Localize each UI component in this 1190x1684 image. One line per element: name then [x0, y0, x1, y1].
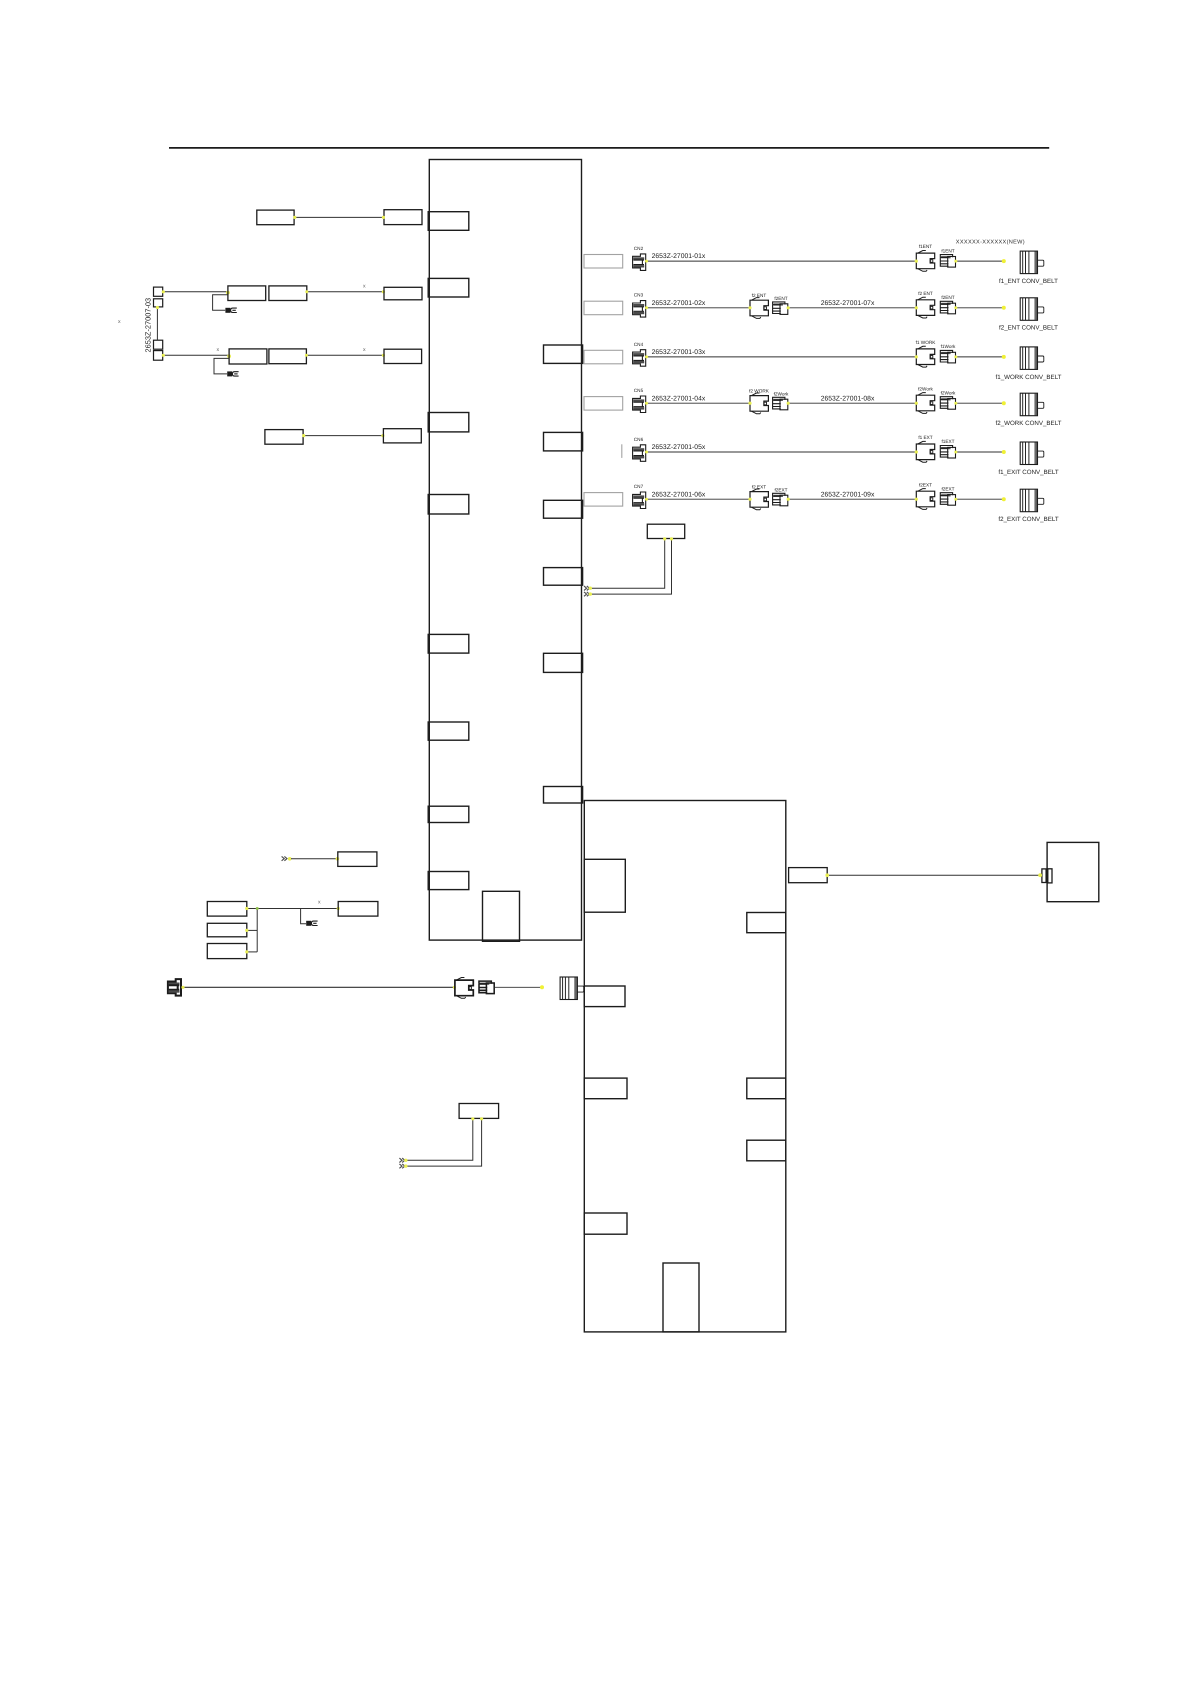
mid wire: [788, 498, 917, 500]
svg-text:2653Z-27001-08x: 2653Z-27001-08x: [821, 395, 875, 402]
svg-text:f1ENT: f1ENT: [941, 248, 954, 253]
remote terminal big box: [1047, 842, 1099, 901]
wire to remote box: [827, 874, 1040, 876]
wire to motor: [956, 260, 1004, 262]
stub arrow row: [282, 856, 287, 860]
PCB1 left edge connector box 3: [428, 413, 469, 432]
group box A: [207, 902, 247, 917]
row2 box 1: [228, 286, 266, 301]
left connector square A1: [154, 287, 163, 296]
svg-text:2653Z-27007-03: 2653Z-27007-03: [143, 298, 152, 353]
wire to motor: [956, 307, 1004, 309]
wire row4: [303, 435, 383, 437]
socket f1Work: [940, 350, 955, 363]
motor row long wire: [182, 986, 455, 988]
group right box D: [338, 902, 378, 917]
svg-text:x: x: [318, 900, 321, 906]
control unit PCB1 box: [429, 160, 581, 941]
PCB2 left edge tall box: [584, 859, 625, 912]
wire sq to row3 box: [163, 354, 229, 356]
socket f2EXT: [940, 493, 955, 506]
PCB1 right edge connector box 3: [544, 500, 583, 518]
svg-text:f2EXT: f2EXT: [941, 486, 954, 491]
motor f1_ENT CONV_BELT: [1020, 251, 1044, 274]
row2 box 2: [269, 286, 307, 301]
connector CN2: [633, 254, 646, 271]
connector CN4: [633, 350, 646, 367]
svg-text:2653Z-27001-06x: 2653Z-27001-06x: [652, 491, 706, 498]
wire: [646, 451, 917, 453]
row4 box 2: [383, 429, 421, 443]
gray edge box row1: [584, 255, 623, 269]
gray stub row5: [621, 444, 623, 458]
top border rule: [169, 147, 1049, 149]
wire to motor: [956, 356, 1004, 358]
svg-text:x: x: [118, 319, 121, 325]
svg-text:2653Z-27001-03x: 2653Z-27001-03x: [652, 349, 706, 356]
plug f1 EXT: [916, 441, 934, 462]
motor f1_EXIT CONV_BELT: [1020, 442, 1044, 465]
svg-text:CN7: CN7: [634, 484, 644, 489]
PCB1 bottom edge box: [483, 891, 520, 941]
wire: [646, 498, 750, 500]
socket f2Work: [940, 397, 955, 410]
control unit PCB2 box: [584, 801, 786, 1332]
group bus wires: [247, 908, 338, 910]
gray edge box row3: [584, 350, 623, 364]
PCB2 right edge box 1: [747, 913, 786, 933]
wire sq to row2 box: [163, 291, 228, 293]
PCB1 left edge connector box 2: [428, 278, 469, 297]
motor f1_WORK CONV_BELT: [1020, 347, 1044, 370]
PCB1 left edge connector box 5: [428, 634, 469, 653]
mid plug f2 EXT: [750, 489, 768, 510]
wire: [646, 307, 750, 309]
svg-text:CN5: CN5: [634, 388, 644, 393]
svg-text:CN6: CN6: [634, 437, 644, 442]
row3 box 2: [269, 349, 307, 364]
wire row3 to box3: [306, 354, 384, 356]
svg-text:x: x: [217, 347, 220, 353]
PCB1 right edge connector box 1: [544, 345, 583, 363]
plug f2Work: [916, 393, 934, 414]
row2 box 3: [384, 287, 422, 300]
socket f2ENT: [940, 301, 955, 314]
svg-text:CN3: CN3: [634, 293, 644, 298]
group box B: [207, 923, 247, 937]
svg-text:f2ENT: f2ENT: [941, 295, 954, 300]
motor row wire 2: [495, 986, 541, 988]
svg-text:f2 WORK: f2 WORK: [749, 389, 770, 394]
left connector square A2: [154, 299, 163, 307]
PCB1 right edge connector box 4: [544, 568, 583, 586]
socket f1ENT: [940, 255, 955, 268]
PCB1 right edge connector box 2: [544, 432, 583, 451]
mid socket f2EXT: [773, 493, 788, 506]
PCB1 right edge connector box 6: [544, 787, 583, 804]
svg-text:f1 WORK: f1 WORK: [916, 340, 937, 345]
mid wire: [788, 307, 917, 309]
wire to motor: [956, 498, 1004, 500]
svg-text:f1EXT: f1EXT: [941, 439, 954, 444]
PCB1 left edge connector box 1: [428, 212, 469, 231]
PCB1 left edge connector box 7: [428, 806, 469, 822]
aux wires down-left: [591, 539, 665, 589]
PCB2 left edge box CN motor: [584, 986, 625, 1007]
motor f2_ENT CONV_BELT: [1020, 298, 1044, 321]
row3 ground branch: [214, 358, 229, 374]
svg-text:2653Z-27001-04x: 2653Z-27001-04x: [652, 395, 706, 402]
wire: [646, 402, 750, 404]
aux box below CN7: [647, 524, 684, 538]
left connector square B2: [154, 351, 163, 361]
svg-text:f2 EXT: f2 EXT: [752, 485, 766, 490]
svg-text:f1_EXIT CONV_BELT: f1_EXIT CONV_BELT: [998, 469, 1059, 476]
svg-text:x: x: [363, 347, 366, 353]
row4 box 1: [265, 430, 303, 445]
mid socket f2Work: [773, 397, 788, 410]
PCB1 right edge connector box 5: [544, 653, 583, 672]
row3 box 3: [384, 349, 422, 363]
connector CN6: [633, 445, 646, 462]
connector CN3: [633, 301, 646, 318]
svg-text:f2_EXIT CONV_BELT: f2_EXIT CONV_BELT: [998, 516, 1059, 523]
mid plug f2 ENT: [750, 298, 768, 319]
wire: [646, 260, 917, 262]
svg-text:f1 EXT: f1 EXT: [918, 435, 932, 440]
left connector square B1: [154, 340, 163, 349]
svg-text:CN4: CN4: [634, 342, 644, 347]
mid wire: [788, 402, 917, 404]
connector CN7: [633, 492, 646, 509]
PCB2 left edge box 4: [584, 1213, 627, 1234]
PCB1 left edge connector box 4: [428, 495, 469, 515]
svg-text:2653Z-27001-09x: 2653Z-27001-09x: [821, 491, 875, 498]
motor f2_WORK CONV_BELT: [1020, 393, 1044, 416]
svg-text:f1_ENT CONV_BELT: f1_ENT CONV_BELT: [999, 278, 1058, 285]
svg-text:2653Z-27001-07x: 2653Z-27001-07x: [821, 300, 875, 307]
motor row connector left: [168, 979, 181, 996]
ring terminal row2: [225, 308, 236, 313]
gray edge box row2: [584, 301, 623, 315]
socket f1EXT: [940, 446, 955, 459]
motor row plug: [455, 978, 473, 999]
relay row 1 right box: [384, 210, 422, 225]
wire to motor: [956, 451, 1004, 453]
wire to motor: [956, 402, 1004, 404]
svg-text:CN2: CN2: [634, 246, 644, 251]
wire row2 to box3: [307, 291, 384, 293]
row3 box 1: [229, 349, 267, 364]
svg-text:f2Work: f2Work: [941, 390, 956, 395]
svg-text:f2 ENT: f2 ENT: [918, 291, 933, 296]
PCB2 right attached box: [789, 868, 828, 883]
connector CN5: [633, 396, 646, 413]
svg-text:x: x: [363, 284, 366, 290]
PCB1 left edge connector box 6: [428, 722, 469, 740]
svg-text:2653Z-27001-02x: 2653Z-27001-02x: [652, 300, 706, 307]
vibration motor: [560, 977, 584, 1000]
group box C: [207, 944, 247, 959]
svg-text:f2_ENT CONV_BELT: f2_ENT CONV_BELT: [999, 325, 1058, 332]
svg-text:f2EXT: f2EXT: [774, 488, 787, 493]
svg-text:2653Z-27001-05x: 2653Z-27001-05x: [652, 444, 706, 451]
svg-text:2653Z-27001-01x: 2653Z-27001-01x: [652, 253, 706, 260]
svg-text:XXXXXX-XXXXXX(NEW): XXXXXX-XXXXXX(NEW): [956, 238, 1025, 245]
svg-text:f2Work: f2Work: [918, 386, 933, 391]
chevron arrows: [584, 586, 589, 590]
PCB2 right edge box 3: [747, 1140, 786, 1161]
group ground branch: [301, 909, 306, 924]
motor f2_EXIT CONV_BELT: [1020, 489, 1044, 512]
PCB2 right edge box 2: [747, 1078, 786, 1099]
relay row 1 left box: [257, 210, 294, 225]
plug f2EXT: [916, 489, 934, 510]
plug f1ENT: [916, 251, 934, 272]
row2 ground branch: [213, 295, 228, 311]
svg-text:f2_WORK CONV_BELT: f2_WORK CONV_BELT: [996, 420, 1062, 427]
svg-text:f1Work: f1Work: [941, 344, 956, 349]
vertical link wire: [156, 307, 158, 340]
gray edge box row4: [584, 397, 623, 411]
wire row1: [294, 216, 384, 218]
svg-text:f2 ENT: f2 ENT: [752, 293, 767, 298]
gray edge box row6: [584, 493, 623, 507]
mid socket f2ENT: [773, 302, 788, 315]
svg-text:f2ENT: f2ENT: [774, 296, 787, 301]
PCB2 bottom edge box: [663, 1263, 699, 1332]
bottom aux box with two wires: [459, 1104, 499, 1119]
PCB2 left edge box 3: [584, 1078, 627, 1099]
svg-text:f1ENT: f1ENT: [919, 244, 932, 249]
mid plug f2 WORK: [750, 393, 768, 414]
plug f1 WORK: [916, 346, 934, 367]
plug f2 ENT: [916, 297, 934, 318]
svg-text:f2Work: f2Work: [774, 392, 789, 397]
svg-text:f2EXT: f2EXT: [919, 482, 932, 487]
ring terminal row3: [227, 371, 238, 376]
svg-text:f1_WORK CONV_BELT: f1_WORK CONV_BELT: [996, 374, 1062, 381]
stub box: [338, 852, 377, 867]
wire: [646, 356, 917, 358]
PCB1 left edge connector box 8: [428, 872, 469, 890]
inline connector halves: [1042, 869, 1046, 883]
motor row socket: [479, 981, 494, 994]
